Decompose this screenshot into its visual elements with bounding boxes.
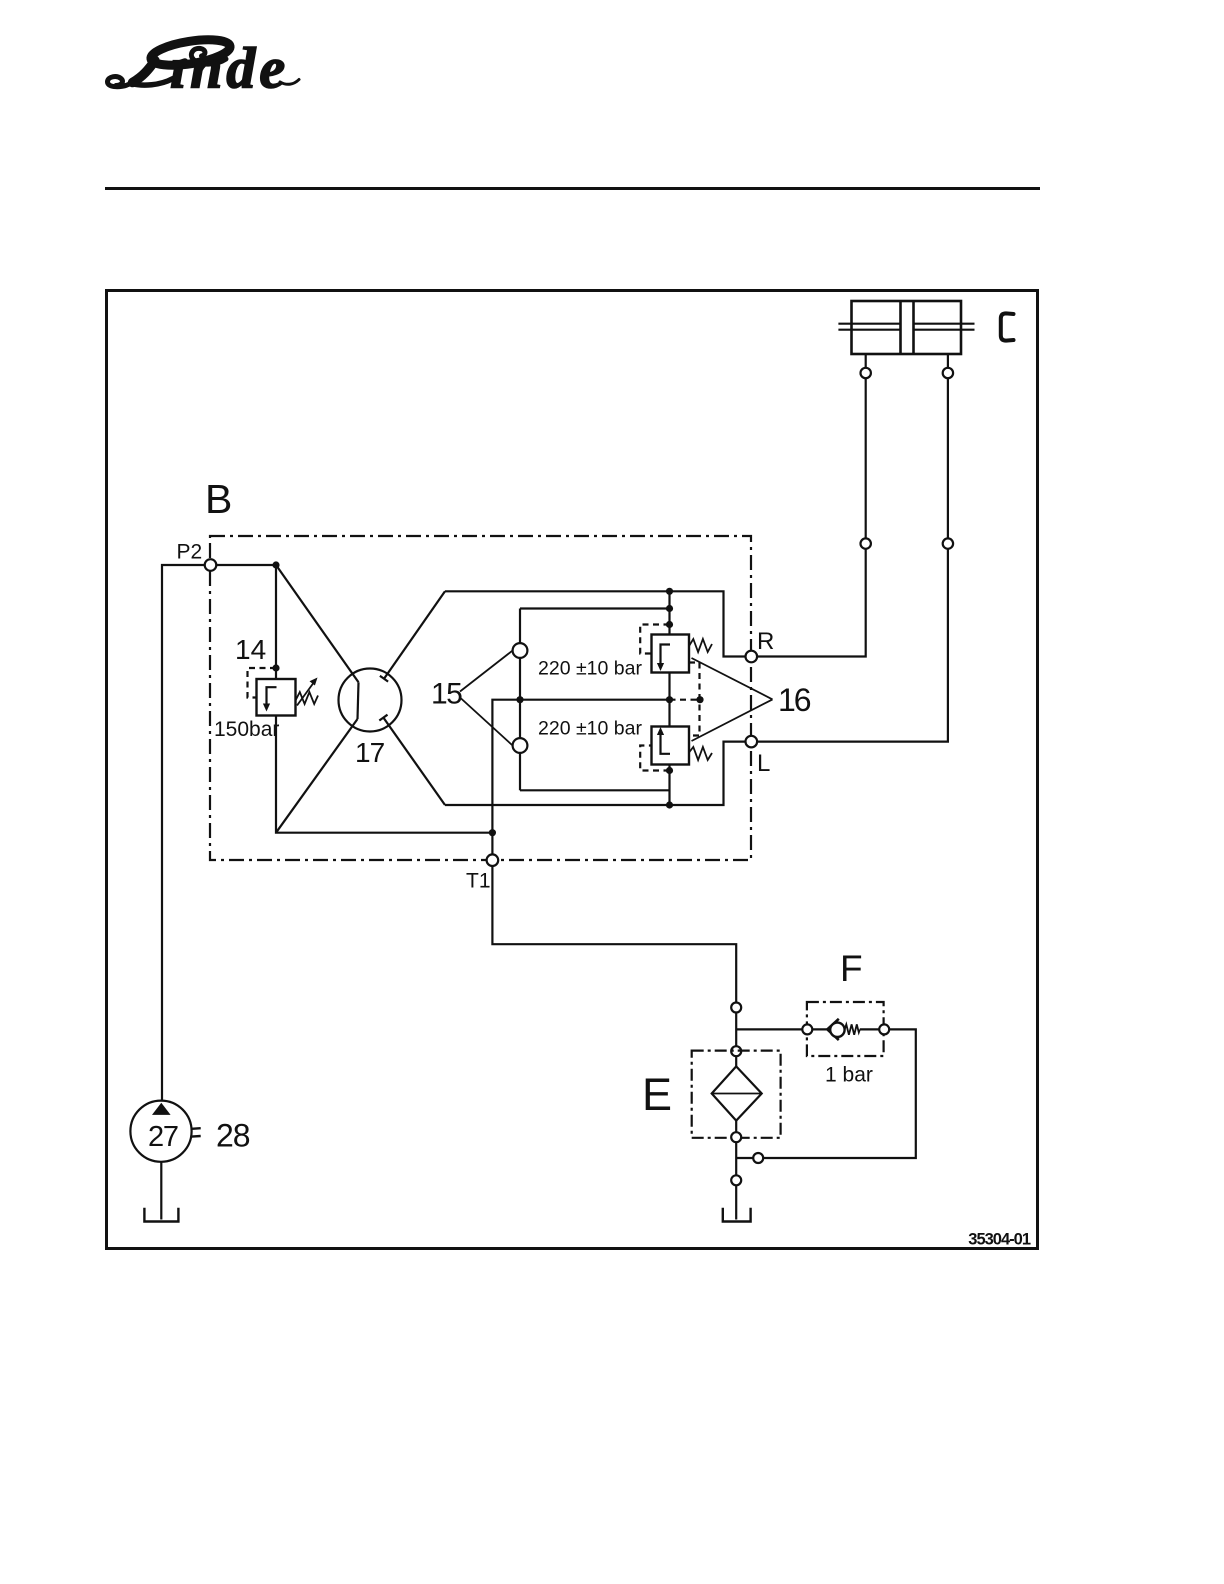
hexagon top line — [445, 591, 746, 656]
pump shaft symbol — [192, 1127, 201, 1130]
wire — [812, 1028, 830, 1030]
wire — [947, 378, 949, 538]
shock valve 16b internal arrow — [661, 733, 671, 754]
wire — [860, 1028, 879, 1030]
wire cylinder right port down — [947, 354, 949, 368]
connector circle — [731, 1003, 741, 1013]
svg-text:E: E — [642, 1069, 672, 1120]
wire — [865, 378, 867, 538]
wire below shock valve 16b — [668, 765, 670, 806]
shock valve 16a spring — [689, 639, 712, 652]
L loop ring — [149, 35, 232, 70]
shuttle block left leg upper — [519, 609, 521, 644]
node junction at P2 branch — [272, 561, 279, 568]
connector circle on E box — [731, 1046, 741, 1056]
leader lines 15 — [460, 651, 513, 692]
wire — [736, 1157, 753, 1159]
wire T1 down to filter branch — [492, 866, 736, 1003]
i tittle dash — [173, 62, 185, 66]
node — [666, 588, 673, 595]
port P2 circle — [205, 559, 217, 571]
cylinder C piston — [899, 301, 902, 354]
Linde logo — [107, 35, 299, 100]
connector circle — [943, 538, 953, 548]
connector circle on E box bottom — [731, 1132, 741, 1142]
node — [516, 696, 523, 703]
header rule — [105, 187, 1040, 190]
port P2 wire from pump riser — [162, 565, 205, 1101]
wire into tank — [735, 1185, 737, 1219]
steering unit diagonal SW — [276, 719, 358, 833]
label C — [1001, 313, 1014, 340]
svg-text:R: R — [757, 628, 774, 655]
main valve line vertical — [668, 591, 670, 634]
svg-text:T1: T1 — [466, 870, 491, 893]
wire to L — [757, 549, 948, 742]
connector circle — [861, 538, 871, 548]
valve 14 pilot dashes — [248, 668, 277, 698]
svg-text:1 bar: 1 bar — [825, 1064, 873, 1087]
shuttle block top line — [520, 607, 670, 609]
wire to R — [757, 549, 866, 657]
hexagon bottom line — [445, 742, 746, 805]
e tail swash — [280, 80, 299, 85]
box B dash-dot border — [210, 536, 751, 860]
svg-text:220 ±10 bar: 220 ±10 bar — [538, 718, 642, 740]
check valve spring — [845, 1024, 860, 1034]
port L circle — [746, 736, 758, 748]
valve 14 spring — [296, 692, 319, 704]
shuttle block left leg lower — [519, 753, 521, 790]
pump direction triangle — [152, 1103, 171, 1115]
steering unit chord — [358, 682, 359, 719]
cross pilot dashed right — [689, 663, 700, 736]
shock valve 16a internal arrow — [661, 645, 671, 666]
valve 14 internal flow arrow — [267, 687, 277, 705]
wire — [519, 700, 521, 738]
wire down to valve 14 — [275, 565, 277, 679]
wire — [519, 658, 521, 700]
shock valve 16a pilot dashes — [640, 625, 669, 654]
check valve seat — [827, 1019, 839, 1040]
cylinder C body — [852, 301, 962, 354]
svg-text:220 ±10 bar: 220 ±10 bar — [538, 658, 642, 680]
tank symbol left — [144, 1208, 178, 1222]
leader lines 16 — [692, 658, 773, 699]
node — [666, 696, 673, 703]
svg-text:15: 15 — [431, 678, 462, 711]
check valve F branch wire — [736, 1028, 802, 1030]
drawing frame — [107, 291, 1038, 1249]
steering unit diagonal NW — [276, 565, 359, 682]
mid pilot dashed — [670, 699, 701, 701]
L underline swash — [131, 79, 173, 86]
L inner spiral — [191, 48, 226, 64]
node junction above T1 — [489, 829, 496, 836]
svg-text:28: 28 — [216, 1118, 250, 1154]
connector circle — [943, 368, 953, 378]
node — [666, 801, 673, 808]
F dash-dot box — [807, 1002, 884, 1056]
wire — [735, 1013, 737, 1047]
node — [666, 621, 673, 628]
steering unit diagonal NE — [384, 591, 445, 678]
F inlet circle — [802, 1024, 812, 1034]
port T1 circle — [487, 854, 499, 866]
wire cylinder left port down — [865, 354, 867, 368]
pump suction wire — [160, 1162, 162, 1220]
node — [666, 605, 673, 612]
wire to tank — [735, 1142, 737, 1175]
L stem — [133, 61, 156, 83]
filter E dash-dot box — [692, 1051, 781, 1138]
pump 27 circle — [130, 1101, 191, 1162]
svg-text:B: B — [205, 476, 232, 522]
node pilot tap of valve 14 — [272, 664, 279, 671]
svg-text:F: F — [840, 948, 863, 989]
node — [696, 696, 703, 703]
valve 14 adjust arrow — [297, 682, 315, 706]
connector circle — [753, 1153, 763, 1163]
tick at NE diagonal end — [380, 676, 388, 682]
F outlet circle — [879, 1024, 889, 1034]
svg-text:150bar: 150bar — [214, 718, 279, 741]
mid line — [492, 700, 669, 861]
wire — [735, 1121, 737, 1133]
shuttle ball circle 15a — [513, 643, 528, 658]
wire P2 to junction — [216, 564, 276, 566]
svg-text:P2: P2 — [177, 541, 203, 564]
node — [666, 767, 673, 774]
relief valve 14 body — [257, 679, 296, 716]
wire — [735, 1056, 737, 1066]
shuttle block bottom line — [520, 789, 670, 791]
svg-text:L: L — [757, 750, 770, 777]
svg-text:ınde: ınde — [170, 36, 289, 101]
svg-text:16: 16 — [778, 682, 811, 718]
filter E element line — [712, 1093, 762, 1095]
svg-text:35304-01: 35304-01 — [968, 1231, 1031, 1249]
wire below valve 14 — [276, 716, 492, 833]
svg-text:27: 27 — [148, 1121, 178, 1153]
connector circle — [731, 1175, 741, 1185]
shock valve 16b spring — [689, 747, 712, 760]
check valve ball — [830, 1023, 844, 1037]
svg-text:17: 17 — [355, 737, 385, 768]
cylinder C rod right — [914, 323, 975, 325]
shock valve 16b pilot dashes — [640, 746, 669, 771]
filter E diamond — [712, 1066, 762, 1120]
steering unit circle 17 — [339, 669, 402, 732]
return wire from F around to tank line — [763, 1029, 916, 1158]
steering unit diagonal SE — [383, 718, 445, 805]
L bottom loop — [107, 77, 132, 87]
connector circle — [861, 368, 871, 378]
tick at SE diagonal end — [379, 715, 387, 721]
shock valve 16b body — [652, 727, 690, 765]
svg-text:14: 14 — [235, 634, 266, 665]
tank symbol right — [723, 1208, 751, 1222]
shock valve 16a body — [652, 635, 690, 673]
shuttle ball circle 15b — [513, 738, 528, 753]
port R circle — [746, 651, 758, 663]
wire between shock valves — [668, 673, 670, 727]
cylinder C rod left — [838, 323, 900, 325]
